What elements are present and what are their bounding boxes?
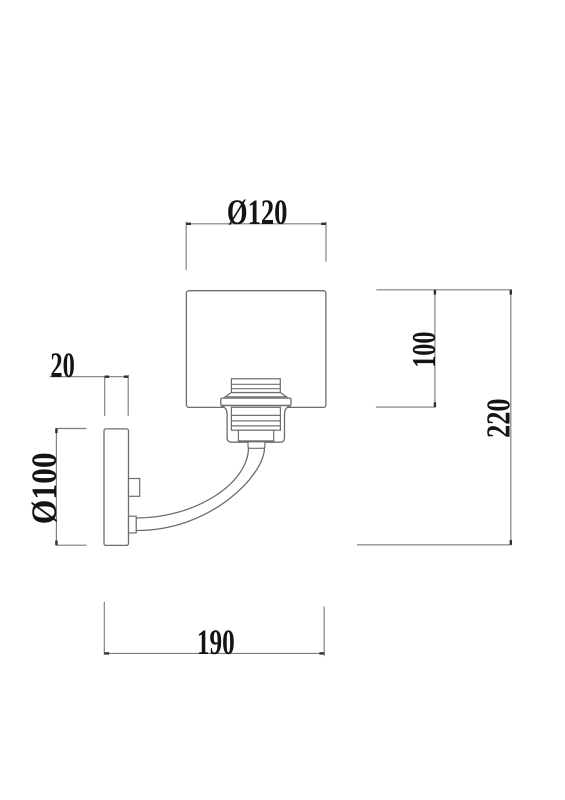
dim 20 extension right (127, 375, 129, 416)
dim 100 extension bottom (376, 406, 436, 408)
dim Ø100 line vertical (55, 428, 57, 545)
switch box (129, 479, 140, 497)
dim Ø120 extension left (185, 222, 187, 270)
dim 220 line vertical (510, 290, 512, 545)
socket flange (221, 398, 291, 405)
dim Ø100 extension top (56, 428, 86, 430)
tick (319, 652, 324, 654)
tick (55, 428, 57, 433)
dim 20 extension left (104, 377, 106, 416)
cap thread line (231, 388, 280, 390)
tick (434, 290, 436, 295)
dim 190 extension left (103, 602, 105, 655)
svg-text:Ø100: Ø100 (24, 452, 64, 524)
tick (105, 376, 110, 378)
cap thread line (231, 383, 280, 385)
wall plate (104, 429, 129, 546)
tick (510, 290, 512, 295)
tick (321, 223, 326, 225)
tick (434, 402, 436, 407)
dim Ø120 line (186, 223, 326, 225)
socket neck trapezoid (225, 393, 286, 397)
dim 190 extension right (323, 607, 325, 657)
thread line (231, 414, 280, 416)
dim 220 extension bottom (357, 544, 512, 546)
tick (510, 540, 512, 545)
shared extension top (376, 289, 512, 291)
dim Ø120 extension right (325, 222, 327, 262)
svg-text:220: 220 (481, 398, 518, 438)
arm stub under socket (248, 442, 265, 449)
socket top threaded cap (231, 379, 280, 393)
thread line (231, 420, 280, 422)
arm connector block (129, 516, 137, 533)
dim 20 line (50, 376, 129, 378)
svg-text:Ø120: Ø120 (227, 192, 288, 232)
svg-text:20: 20 (50, 345, 74, 385)
tick (55, 541, 57, 546)
dim 100 line vertical (434, 290, 436, 407)
svg-text:190: 190 (197, 622, 235, 662)
arm (136, 448, 265, 531)
socket inner threads (231, 407, 280, 430)
tick (186, 223, 191, 225)
lamp shade glass cylinder (186, 291, 326, 408)
socket skirt (221, 406, 291, 443)
dim Ø100 extension bottom (56, 544, 86, 546)
svg-text:100: 100 (406, 332, 443, 368)
thread line (231, 425, 280, 427)
tick (104, 652, 109, 654)
dim 190 line (104, 652, 324, 654)
socket lower ring (238, 430, 273, 441)
tick (124, 376, 128, 378)
